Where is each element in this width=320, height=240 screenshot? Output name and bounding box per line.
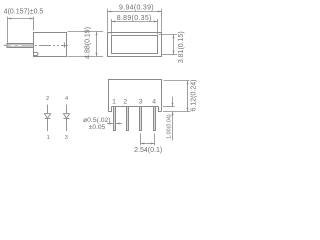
svg-text:6.12(0.24): 6.12(0.24) bbox=[190, 80, 197, 112]
svg-text:ø0.5(.02): ø0.5(.02) bbox=[83, 117, 111, 124]
svg-text:3: 3 bbox=[65, 135, 68, 141]
svg-text:3.81(0.15): 3.81(0.15) bbox=[178, 31, 185, 63]
svg-text:4.88(0.19): 4.88(0.19) bbox=[85, 27, 92, 59]
svg-text:1.00(0.04): 1.00(0.04) bbox=[166, 114, 172, 139]
svg-text:8.89(0.35): 8.89(0.35) bbox=[117, 15, 152, 22]
svg-text:2.54(0.1): 2.54(0.1) bbox=[134, 147, 162, 154]
svg-text:4(0.157)±0.5: 4(0.157)±0.5 bbox=[4, 9, 44, 16]
svg-text:1: 1 bbox=[47, 135, 50, 141]
svg-text:4: 4 bbox=[65, 96, 68, 102]
svg-text:±0.05: ±0.05 bbox=[89, 124, 106, 131]
svg-text:4: 4 bbox=[152, 99, 156, 106]
svg-text:2: 2 bbox=[46, 96, 49, 102]
svg-text:3: 3 bbox=[139, 99, 143, 106]
svg-text:2: 2 bbox=[123, 99, 127, 106]
svg-text:9.94(0.39): 9.94(0.39) bbox=[119, 4, 154, 11]
svg-text:1: 1 bbox=[112, 99, 116, 106]
